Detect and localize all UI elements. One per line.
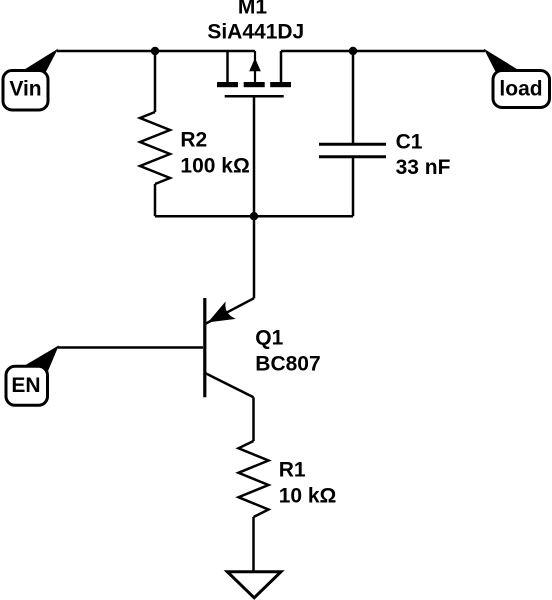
net flag Vin <box>3 50 57 110</box>
svg-text:SiA441DJ: SiA441DJ <box>207 21 304 44</box>
resistor R1 <box>239 441 269 517</box>
M1 gate plate <box>225 95 284 98</box>
wire R1 to ground <box>252 517 255 572</box>
wire M1 gate lead down to rail <box>253 96 256 216</box>
svg-text:M1: M1 <box>238 0 267 19</box>
net flag EN <box>6 347 58 406</box>
M1 drain contact bar <box>270 82 291 87</box>
Q1 emitter arrow <box>210 304 233 321</box>
svg-text:10 kΩ: 10 kΩ <box>279 485 337 508</box>
wire gate node down to Q1 emitter <box>253 216 256 298</box>
wire C1 bottom lead <box>352 157 355 217</box>
wire EN to Q1 base <box>58 346 203 349</box>
transistor M1 (P-MOSFET SiA441DJ) <box>217 51 291 96</box>
wire C1 top lead <box>352 51 355 144</box>
C1 bottom plate <box>319 155 386 158</box>
wire R2 bottom lead <box>154 184 157 216</box>
M1 source contact bar <box>217 82 238 87</box>
svg-text:Vin: Vin <box>9 78 41 101</box>
ground <box>227 572 281 598</box>
svg-text:load: load <box>499 77 542 100</box>
wire bottom rail (R2 to C1) <box>155 215 353 218</box>
M1 drain lead <box>280 51 283 82</box>
wire top-right (M1 drain to load) <box>281 50 485 53</box>
svg-text:100 kΩ: 100 kΩ <box>180 154 249 177</box>
Vin pointer wedge <box>25 50 57 72</box>
C1 top plate <box>319 143 386 146</box>
Q1 collector diagonal <box>205 373 254 397</box>
EN box <box>6 366 48 405</box>
load box <box>493 71 550 108</box>
resistor R2 <box>140 112 170 184</box>
Q1 base bar <box>203 298 206 397</box>
capacitor C1 <box>319 144 386 157</box>
Q1 emitter diagonal <box>205 298 254 324</box>
transistor Q1 (PNP BC807) <box>205 298 254 397</box>
node junction dot left (Vin / R2) <box>151 47 159 55</box>
node junction dot gate rail <box>250 212 258 220</box>
wire R2 top lead <box>154 51 157 112</box>
EN pointer wedge <box>24 347 58 375</box>
svg-text:33 nF: 33 nF <box>396 156 451 179</box>
M1 body contact bar <box>244 82 265 87</box>
svg-text:EN: EN <box>11 374 40 397</box>
load pointer wedge <box>485 50 518 72</box>
svg-text:R2: R2 <box>180 129 207 152</box>
M1 body arrow <box>249 58 261 71</box>
svg-text:C1: C1 <box>396 131 423 154</box>
svg-text:Q1: Q1 <box>255 326 283 349</box>
Vin box <box>3 71 48 111</box>
wire top-left (Vin to M1 source) <box>57 50 255 53</box>
wire Q1 collector lead <box>252 397 255 441</box>
svg-text:BC807: BC807 <box>255 352 320 375</box>
M1 body lead <box>254 51 256 82</box>
node junction dot right (drain / C1) <box>349 47 357 55</box>
net flag load <box>485 50 550 108</box>
M1 source lead <box>226 51 229 82</box>
svg-text:R1: R1 <box>279 458 306 481</box>
